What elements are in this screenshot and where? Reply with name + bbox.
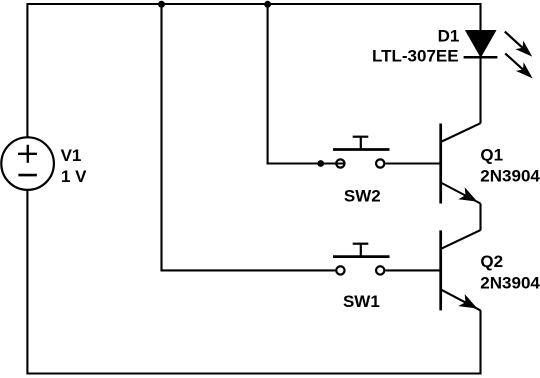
switch SW1 right terminal — [376, 266, 384, 274]
svg-text:Q1: Q1 — [480, 146, 503, 165]
transistor Q1 emitter arrow — [458, 187, 477, 201]
V1 minus sign — [18, 174, 37, 177]
LED D1 emission arrow upper — [505, 32, 532, 57]
switch SW1 actuator bar — [333, 255, 390, 258]
voltage source V1 circle — [1, 137, 54, 190]
transistor Q2 base bar — [439, 230, 442, 310]
switch SW2 right terminal — [376, 159, 384, 167]
node junction dot left — [158, 1, 165, 8]
switch SW1 left terminal — [336, 266, 344, 274]
svg-text:1 V: 1 V — [61, 167, 87, 186]
wire top rail from V1 plus terminal to D1 anode — [27, 4, 480, 137]
wire V1 minus terminal to bottom rail up to Q2 emitter — [27, 190, 480, 373]
wire Q1 emitter to Q2 collector — [479, 204, 481, 231]
node SW2 input dot — [317, 160, 324, 167]
switch SW2 left terminal — [336, 159, 344, 167]
svg-text:V1: V1 — [61, 146, 82, 165]
LED D1 anode triangle — [466, 31, 496, 57]
wire SW2 to Q1 base — [386, 162, 441, 164]
transistor Q1 collector lead — [441, 123, 481, 142]
wire SW1 to Q2 base — [386, 269, 441, 271]
wire D1 cathode to Q1 collector — [479, 57, 481, 123]
LED D1 emission arrow lower — [505, 53, 532, 78]
switch SW2 plunger cap — [353, 136, 369, 138]
transistor Q2 collector lead — [441, 230, 481, 249]
svg-text:LTL-307EE: LTL-307EE — [372, 47, 459, 66]
switch SW1 plunger cap — [353, 243, 369, 245]
transistor Q1 emitter lead — [441, 183, 481, 204]
svg-text:SW1: SW1 — [343, 292, 380, 311]
transistor Q2 emitter arrow — [458, 294, 477, 308]
svg-text:D1: D1 — [438, 27, 460, 46]
svg-text:Q2: Q2 — [480, 252, 503, 271]
LED D1 cathode bar — [464, 56, 498, 59]
svg-text:2N3904: 2N3904 — [480, 167, 540, 186]
node junction dot right — [264, 1, 271, 8]
switch SW1 plunger stem — [360, 244, 362, 257]
wire branch to SW2 — [268, 4, 346, 164]
switch SW2 actuator bar — [333, 148, 390, 151]
svg-text:SW2: SW2 — [344, 187, 381, 206]
transistor Q1 base bar — [439, 124, 442, 204]
svg-text:2N3904: 2N3904 — [480, 274, 540, 293]
wire branch to SW1 — [162, 4, 336, 270]
transistor Q2 emitter lead — [441, 289, 481, 310]
V1 plus sign — [18, 145, 37, 163]
switch SW2 plunger stem — [360, 137, 362, 150]
